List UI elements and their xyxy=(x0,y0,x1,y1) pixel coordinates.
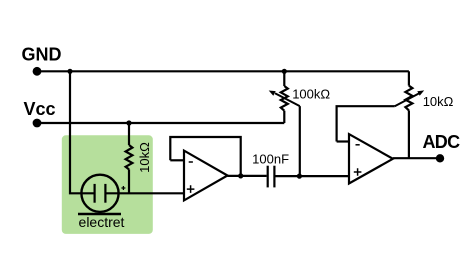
terminal dot GND xyxy=(33,67,42,76)
wire: P1 bottom lead to Vcc rail xyxy=(283,111,285,123)
wire: electret output to op-amp U1 + input xyxy=(105,192,185,194)
op-amp U1 plus sign xyxy=(187,185,195,193)
wire: R1 bottom lead to signal line xyxy=(128,169,130,193)
wire: GND rail down to electret left terminal xyxy=(70,71,95,193)
electret microphone MK1 body xyxy=(81,175,118,212)
value label 10kΩ (R1, rotated) xyxy=(137,142,152,173)
wire: P1 wiper to bias node xyxy=(299,106,301,176)
net label GND xyxy=(22,45,62,65)
wire: GND rail xyxy=(37,70,409,72)
op-amp U2 plus sign xyxy=(354,168,362,176)
terminal dot ADC xyxy=(436,154,444,162)
junction: Vcc rail / resistor R1 xyxy=(126,120,131,125)
junction: GND rail / electret branch xyxy=(67,69,72,74)
resistor R1 10k zigzag xyxy=(126,145,133,169)
highlight box around electret section xyxy=(62,135,153,234)
terminal dot Vcc xyxy=(33,119,42,128)
potentiometer P1 wiper arrow xyxy=(269,91,300,107)
wire: Vcc rail xyxy=(37,122,284,124)
wire: U1 inverting input stub xyxy=(170,159,184,161)
junction: bias node after C1 xyxy=(297,174,302,179)
op-amp U2 minus sign xyxy=(356,144,360,146)
electret capsule right plate xyxy=(104,184,106,203)
svg-text:10kΩ: 10kΩ xyxy=(423,94,454,109)
electret polarity + marker xyxy=(121,186,125,190)
value label 10kΩ (P2) xyxy=(423,94,454,109)
electret bottom case line xyxy=(78,213,121,215)
electret capsule left plate xyxy=(93,184,95,203)
wire: R1 top lead xyxy=(128,123,130,145)
wire: U2 output to ADC xyxy=(393,157,440,159)
potentiometer P1 100k zigzag xyxy=(281,86,288,111)
wire: U2 feedback loop to P2 wiper xyxy=(337,106,395,141)
value label 100kΩ (P1) xyxy=(292,86,330,101)
wire: C1 to op-amp U2 + input xyxy=(274,175,350,177)
wire: P2 bottom lead down to output line xyxy=(408,110,410,158)
wire: P1 top lead from GND rail xyxy=(283,71,285,86)
junction: GND rail / potentiometer P1 top xyxy=(282,69,287,74)
net label ADC xyxy=(423,132,461,152)
wire: U1 output to capacitor C1 xyxy=(228,175,267,177)
wire: GND rail corner down to P2 top xyxy=(408,71,410,85)
svg-text:GND: GND xyxy=(22,45,62,65)
svg-text:100nF: 100nF xyxy=(252,152,289,167)
svg-text:electret: electret xyxy=(79,214,125,230)
potentiometer P2 10k zigzag xyxy=(405,86,412,111)
op-amp U1 minus sign xyxy=(189,161,193,163)
capacitor C1 right plate xyxy=(273,166,275,188)
wire: U2 inverting input stub xyxy=(337,140,349,142)
capacitor C1 left plate xyxy=(267,166,269,188)
svg-text:10kΩ: 10kΩ xyxy=(137,142,152,173)
value label 100nF xyxy=(252,152,289,167)
wire: U1 feedback loop (output to inverting input) xyxy=(170,137,240,176)
op-amp U2 triangle xyxy=(349,134,393,183)
label electret xyxy=(79,214,125,230)
svg-text:100kΩ: 100kΩ xyxy=(292,86,330,101)
op-amp U1 triangle xyxy=(184,151,228,201)
potentiometer P2 wiper arrow xyxy=(395,90,425,106)
junction: U1 output / feedback xyxy=(238,173,243,178)
svg-text:ADC: ADC xyxy=(423,132,461,152)
net label Vcc xyxy=(24,99,56,119)
svg-text:Vcc: Vcc xyxy=(24,99,56,119)
